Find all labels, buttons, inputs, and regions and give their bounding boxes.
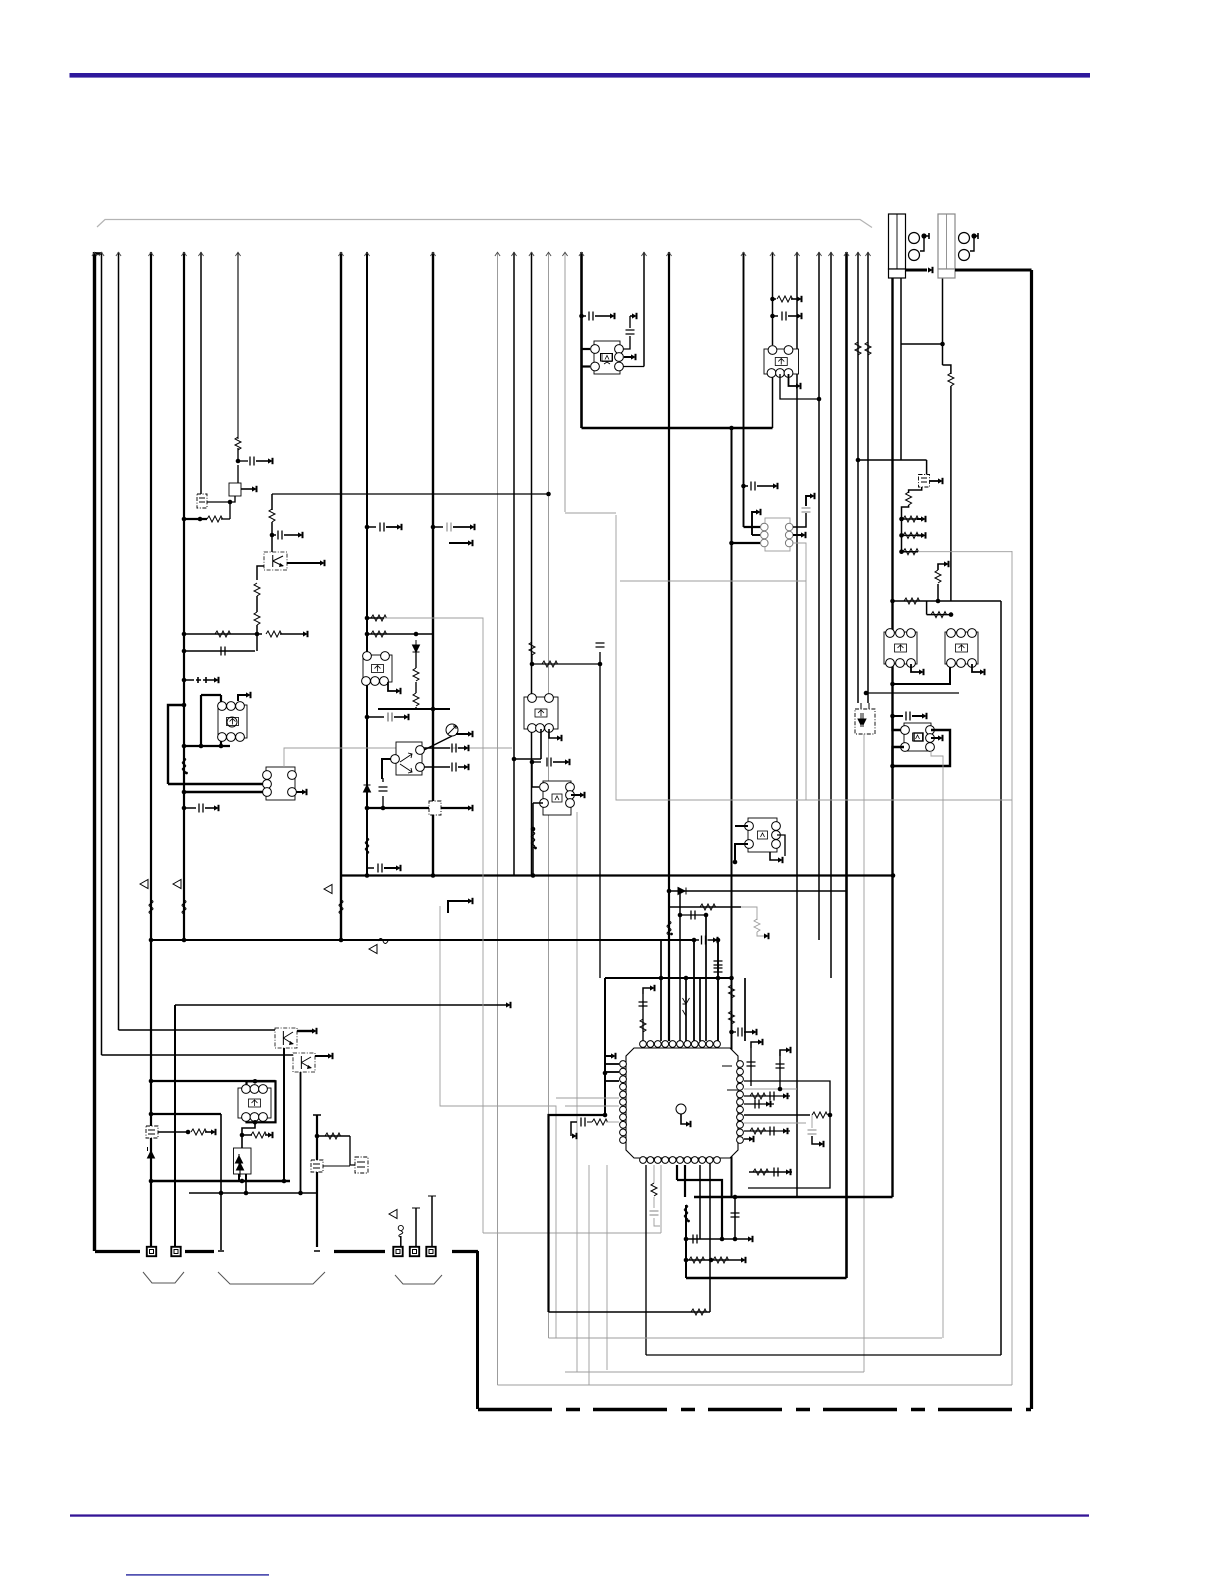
- wire net686: [685, 978, 687, 1041]
- resistor: [266, 631, 282, 637]
- resistor: [753, 1169, 769, 1175]
- transistor Q (chopper): [229, 483, 241, 496]
- wire net745: [744, 978, 746, 1041]
- wire hook: [972, 664, 980, 672]
- wire hook: [812, 1136, 819, 1144]
- wire: [415, 652, 417, 709]
- junction: [678, 913, 683, 918]
- terminal: [764, 933, 769, 938]
- wire rail1055: [102, 1054, 295, 1056]
- wire net317: [316, 1115, 318, 1247]
- wire bus16: [580, 252, 583, 428]
- wire bus5: [183, 252, 185, 940]
- capacitor: [802, 508, 811, 512]
- wire: [207, 501, 230, 503]
- terminal: [464, 745, 469, 750]
- junction: [298, 1191, 303, 1196]
- mark: [357, 1162, 365, 1167]
- pin tick: [314, 1250, 320, 1252]
- wire: [458, 766, 464, 768]
- wire stub772: [772, 377, 774, 428]
- pin1 mark: [722, 1065, 732, 1067]
- wire: [265, 1134, 268, 1136]
- junction: [365, 873, 370, 878]
- junction: [182, 790, 187, 795]
- capacitor: [751, 482, 755, 491]
- resistor: [750, 1093, 766, 1099]
- terminal: [404, 714, 409, 719]
- tick: [313, 1114, 321, 1116]
- wire net700: [699, 978, 701, 1041]
- junction: [899, 549, 904, 554]
- junction: [315, 1134, 320, 1139]
- junction: [240, 1133, 245, 1138]
- relay/pack D: [263, 767, 297, 800]
- thick frame Q42: [247, 1081, 276, 1122]
- junction: [253, 1079, 258, 1084]
- wire: [229, 502, 231, 519]
- capacitor: [380, 523, 384, 532]
- junction: [182, 678, 187, 683]
- terminal: [748, 1236, 753, 1241]
- junction: [255, 632, 260, 637]
- terminal: [944, 561, 949, 566]
- terminal: [796, 383, 801, 388]
- wire net221: [220, 1114, 222, 1250]
- wire net1001: [1000, 601, 1002, 1355]
- wire: [532, 761, 541, 763]
- junction: [381, 806, 386, 811]
- capacitor: [731, 1213, 740, 1217]
- wire net680: [679, 891, 681, 1041]
- gray branch907: [741, 907, 757, 920]
- inner mark: [199, 498, 205, 502]
- wire: [926, 601, 928, 615]
- gray loop: [498, 1384, 1013, 1386]
- resistor: [207, 516, 223, 522]
- resistor: [254, 612, 260, 625]
- junction: [817, 397, 822, 402]
- junction: [729, 976, 734, 981]
- terminal: [302, 789, 307, 794]
- resistor: [812, 1112, 828, 1118]
- terminal: [980, 669, 985, 674]
- gray: [793, 543, 806, 581]
- flex wire: [399, 1231, 403, 1237]
- resistor: [948, 373, 954, 386]
- wire J2 to trunk: [955, 269, 1032, 272]
- wire bus3: [118, 252, 120, 1030]
- wire: [793, 513, 806, 527]
- gray: [606, 1121, 619, 1123]
- wire: [453, 526, 470, 528]
- wire: [917, 534, 921, 536]
- capacitor: [747, 1062, 756, 1066]
- capacitor: [250, 457, 254, 466]
- wire: [595, 315, 610, 317]
- wire net661: [660, 940, 662, 1041]
- wire hook gnd: [571, 1122, 577, 1136]
- transistor pack Q4: [761, 518, 794, 551]
- wire: [256, 460, 268, 462]
- junction: [890, 599, 895, 604]
- transistor pack Q31: [540, 781, 575, 815]
- junction: [149, 938, 154, 943]
- IC U1 left pins: [620, 1061, 627, 1144]
- wire thick: [582, 365, 591, 367]
- diodes: [858, 713, 866, 727]
- junction: [149, 1112, 154, 1117]
- wire pin drop: [415, 1208, 417, 1247]
- wire: [367, 526, 376, 528]
- resistor: [269, 509, 275, 522]
- wire conn1 right leg: [900, 277, 902, 460]
- diode pack D40: [234, 1148, 252, 1174]
- resistor: [651, 1183, 657, 1196]
- terminal: [752, 1029, 757, 1034]
- junction: [890, 682, 895, 687]
- wire thick: [315, 1055, 328, 1057]
- wire: [752, 534, 760, 536]
- wire rail493: [272, 493, 549, 495]
- wire gnd drop: [476, 1251, 479, 1409]
- terminal: [749, 1136, 754, 1141]
- terminal: [741, 1257, 746, 1262]
- wire bus15: [564, 252, 566, 512]
- junction: [228, 500, 233, 505]
- wire bus18: [668, 252, 670, 1041]
- junction: [182, 806, 187, 811]
- wire net246: [245, 1174, 247, 1193]
- wire hook: [630, 315, 632, 317]
- resistor: [235, 437, 241, 450]
- terminal: [298, 532, 303, 537]
- wire pin link: [623, 366, 644, 368]
- transistor pack Q3: [764, 346, 799, 378]
- terminal: [268, 458, 273, 463]
- transistor pack QB: [945, 629, 978, 668]
- junction: [864, 691, 869, 696]
- wire bus25: [857, 252, 859, 703]
- wire bus14: [548, 252, 550, 1338]
- wire rail808: [367, 807, 468, 809]
- mark: [148, 1130, 155, 1134]
- transistor pack Q10: [218, 702, 247, 742]
- wire rail907: [669, 906, 741, 908]
- wire hook: [911, 664, 919, 672]
- capacitor: [770, 1127, 774, 1136]
- junction: [149, 1179, 154, 1184]
- gray link: [284, 748, 512, 767]
- junction: [603, 1071, 608, 1076]
- wire rail1030: [119, 1029, 277, 1031]
- terminal: [786, 1169, 791, 1174]
- wire: [350, 1136, 355, 1165]
- gray loop: [549, 1337, 943, 1339]
- junction: [198, 517, 203, 522]
- terminal: [557, 735, 562, 740]
- wire gnd bus: [95, 1250, 140, 1253]
- resistor: [529, 642, 535, 655]
- wire cap branch: [238, 460, 248, 462]
- wire: [221, 518, 230, 520]
- wire loop: [744, 1081, 830, 1188]
- wire thick: [582, 348, 591, 350]
- junction: [149, 1079, 154, 1084]
- junction: [741, 484, 746, 489]
- wire: [773, 298, 777, 300]
- terminal: [468, 540, 473, 545]
- wire: [449, 542, 468, 544]
- wire conn2 left leg: [942, 277, 944, 365]
- gray pinrow: [565, 1105, 619, 1107]
- wire hook: [938, 564, 944, 570]
- wire bus24: [845, 252, 848, 1278]
- wire: [734, 1197, 736, 1239]
- capacitor: [199, 804, 203, 813]
- transistor pack Q20: [362, 652, 392, 686]
- junction: [282, 1179, 287, 1184]
- wire: [384, 867, 396, 869]
- gray net560: [565, 512, 616, 514]
- junction: [182, 517, 187, 522]
- junction: [182, 649, 187, 654]
- wire gnd bus: [185, 1250, 214, 1253]
- capacitor: [547, 758, 551, 767]
- junction: [365, 632, 370, 637]
- gray: [653, 1197, 655, 1208]
- wire rail891: [669, 890, 847, 892]
- wire rail1278: [686, 1277, 847, 1279]
- connector pin: [147, 1247, 156, 1256]
- junction: [365, 616, 370, 621]
- wire: [317, 1135, 350, 1137]
- wire: [694, 939, 699, 941]
- wire: [283, 1048, 285, 1181]
- terminal: [631, 354, 636, 359]
- wire hook: [780, 1050, 786, 1056]
- terminal: [565, 759, 570, 764]
- terminal: [214, 677, 219, 682]
- connector J1 contacts: [909, 233, 930, 261]
- gray pinrow: [556, 1097, 619, 1099]
- terminal: [312, 1028, 317, 1033]
- wire bus7: [237, 252, 239, 439]
- terminal: [320, 560, 325, 565]
- wire: [645, 1165, 647, 1355]
- capacitor: [808, 1130, 817, 1134]
- inner sq: [914, 733, 923, 741]
- terminal: [572, 1133, 577, 1138]
- junction: [431, 525, 436, 530]
- junction: [891, 873, 896, 878]
- terminal: [396, 688, 401, 693]
- wire: [750, 1048, 752, 1086]
- tick: [412, 1207, 420, 1209]
- wire thick: [220, 695, 222, 746]
- wire: [531, 655, 533, 664]
- capacitor: [221, 647, 225, 656]
- junction: [270, 533, 275, 538]
- junction: [667, 889, 672, 894]
- resistor: [640, 1019, 646, 1032]
- connector J1: [889, 214, 906, 278]
- wire rail709: [378, 708, 450, 710]
- wire hook: [238, 695, 246, 701]
- capacitor: [702, 936, 706, 945]
- wire: [205, 807, 214, 809]
- IC U1 index circle: [676, 1104, 686, 1114]
- wire rail519: [184, 518, 207, 520]
- junction: [236, 459, 241, 464]
- wire bus2: [101, 252, 103, 1055]
- wire thick: [732, 542, 761, 544]
- wire: [241, 488, 252, 490]
- terminal: [713, 937, 718, 942]
- wire gnd bus: [452, 1250, 478, 1253]
- wire: [902, 551, 919, 553]
- junction: [414, 632, 419, 637]
- wire rail1081: [151, 1080, 276, 1082]
- junction: [253, 1120, 258, 1125]
- wire rail1005: [175, 1004, 506, 1006]
- wire: [532, 663, 600, 665]
- diodes: [236, 1154, 244, 1177]
- wire J1 out: [906, 269, 928, 272]
- resistor: [906, 492, 912, 505]
- wire V+ bus: [93, 252, 96, 1251]
- wire: [757, 485, 773, 487]
- wire net533: [532, 803, 534, 876]
- junction: [733, 1195, 738, 1200]
- wire: [624, 356, 631, 358]
- wire thick: [200, 695, 202, 746]
- mark: [313, 1164, 320, 1168]
- capacitor: [738, 1028, 742, 1037]
- resistor: [254, 583, 260, 596]
- footer link underline: [126, 1574, 269, 1575]
- junction: [530, 662, 535, 667]
- wire thick: [297, 1030, 312, 1032]
- transistor pack Q6: [901, 723, 935, 751]
- terminal: [468, 898, 473, 903]
- capacitor: [452, 763, 456, 772]
- wire rail978: [605, 977, 732, 979]
- resistor: [592, 1119, 608, 1125]
- wire: [367, 633, 433, 635]
- net flag: [369, 945, 377, 954]
- gray loop: [565, 1371, 864, 1373]
- terminal: [396, 865, 401, 870]
- connector pin: [410, 1247, 419, 1256]
- wire bus22: [818, 252, 820, 940]
- wire: [287, 562, 320, 564]
- resistor: [689, 1257, 705, 1263]
- wire thick: [735, 825, 748, 827]
- terminal: [797, 296, 802, 301]
- gray net440: [440, 906, 556, 1338]
- wire rail1197: [694, 1196, 893, 1198]
- wire bus12: [513, 252, 515, 876]
- wire hook: [388, 682, 396, 691]
- wire: [256, 596, 258, 612]
- wire: [394, 716, 404, 718]
- wire: [791, 298, 797, 300]
- wire pin drop: [431, 1196, 433, 1247]
- net flag: [389, 1210, 397, 1219]
- capacitor: [452, 744, 456, 753]
- junction: [365, 715, 370, 720]
- wire bus1 top hook: [95, 252, 102, 255]
- wire: [242, 1134, 252, 1136]
- wire thick c: [684, 1165, 686, 1197]
- wire: [284, 534, 298, 536]
- wire pin drop: [400, 1236, 402, 1247]
- resistor: [903, 532, 919, 538]
- wire thick: [893, 730, 951, 766]
- terminal: [786, 1047, 791, 1052]
- terminal: [938, 478, 943, 483]
- wire caprow: [424, 747, 450, 749]
- capacitor: [755, 1100, 759, 1109]
- terminal: [211, 1129, 216, 1134]
- wire thick b: [677, 1180, 722, 1239]
- capacitor: [626, 330, 635, 334]
- resistor: [691, 1309, 707, 1315]
- junction: [186, 1130, 191, 1135]
- terminal: [928, 267, 933, 272]
- terminal: [506, 1002, 511, 1007]
- wire conn1 left leg: [891, 277, 893, 1197]
- wire: [184, 679, 194, 681]
- wire cap row: [184, 807, 196, 809]
- wire: [788, 315, 797, 317]
- pin mark: [727, 1089, 737, 1091]
- wire: [777, 835, 785, 856]
- junction: [531, 827, 536, 832]
- junction: [531, 873, 536, 878]
- inductor: [684, 1205, 688, 1221]
- resistor: [855, 342, 861, 355]
- capacitor: [691, 911, 695, 920]
- wire bus8: [340, 252, 342, 940]
- wire net605: [604, 978, 606, 1115]
- junction: [709, 1258, 714, 1263]
- wire: [271, 535, 273, 552]
- wire: [239, 1174, 246, 1181]
- connector J2: [938, 214, 955, 278]
- wire: [937, 584, 939, 601]
- capacitor: [650, 1211, 659, 1215]
- fuse/filter: [429, 801, 441, 815]
- resistor: [713, 1257, 729, 1263]
- wire: [201, 694, 221, 696]
- terminal: [303, 631, 308, 636]
- resistor: [700, 904, 716, 910]
- gray net577: [576, 812, 578, 1372]
- IC photo-coupler: [197, 494, 207, 508]
- wire rail634: [184, 633, 262, 635]
- wire gnd bus: [334, 1250, 385, 1253]
- connector pin: [393, 1247, 402, 1256]
- junction: [684, 976, 689, 981]
- wire: [708, 939, 714, 941]
- wire: [230, 496, 235, 502]
- junction: [219, 744, 224, 749]
- gray net942: [942, 800, 944, 1338]
- terminal: [252, 486, 257, 491]
- wire cap868: [367, 867, 374, 869]
